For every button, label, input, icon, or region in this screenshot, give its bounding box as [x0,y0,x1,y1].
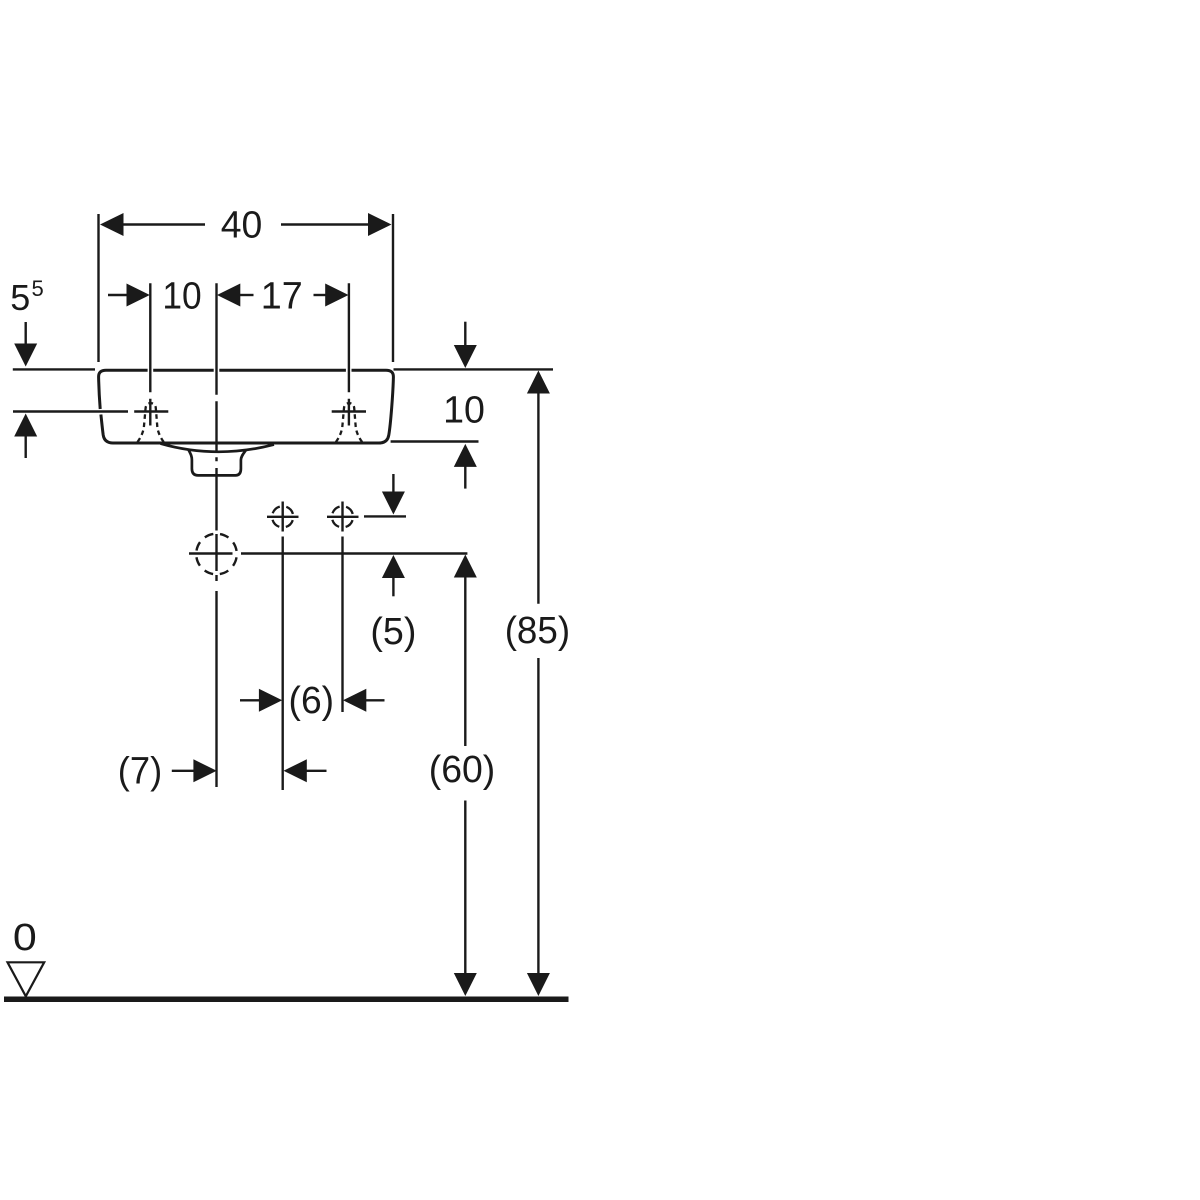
dimension 5.5 arrow down tail [25,322,27,346]
svg-text:10: 10 [162,276,201,318]
dimension (6): arrow left [343,689,366,712]
dimension 40 line right segment [281,223,369,225]
dimension 10 right: arrow up [454,444,477,467]
fixing hole right: dashed circle [332,506,353,527]
basin top reference line right [394,368,554,370]
dimension 10 arrow left [127,284,150,307]
floor line [4,997,569,1003]
dimension (7): tail line right [306,770,326,772]
basin outline left wall lower, bottom and right wall [101,370,394,443]
dimension (85): line lower [537,658,539,975]
svg-text:5: 5 [32,276,44,301]
dimension 17 arrow left [217,284,240,307]
svg-text:10: 10 [443,390,485,432]
fixing hole left: horizontal cross line [267,516,299,518]
dimension 5 arrow up [382,555,405,578]
dimension 10 right: arrow down tail [464,322,466,346]
dimension 17 tail line right [314,294,327,296]
dimension (60): line lower [464,801,466,975]
dimension 5 arrow up tail [392,578,394,597]
svg-text:5: 5 [10,277,30,318]
svg-text:(60): (60) [429,749,496,791]
dimension 10 right: arrow up tail [464,466,466,488]
basin outline top edge [106,369,386,372]
dimension (7): arrow right [193,759,216,782]
fixing hole right: horizontal cross line [327,516,359,518]
dimension (6): tail line right [366,699,385,701]
dimension 5.5 arrow down [14,344,37,367]
basin bottom reference line right [391,440,479,442]
fixing hole left: vertical cross line [282,502,284,532]
tap hole axis reference line left [13,410,128,412]
faucet symbol left (dashed) [138,403,164,442]
bowl lip arc [161,444,275,452]
fixing hole left: centerline down [282,537,284,791]
dimension 17 tail line left [240,294,254,296]
dimension (85): line upper [537,393,539,604]
tap hole axis line through right faucet [332,410,366,412]
svg-text:40: 40 [221,205,263,247]
drain hole horizontal cross line [189,552,233,554]
dimension (7): arrow left [284,759,307,782]
dimension (85): arrow up [527,371,550,394]
datum triangle symbol [8,962,45,996]
dimension 40 extension line right [392,214,394,362]
dimension 5.5 arrow up tail [25,436,27,458]
svg-text:(7): (7) [118,751,162,793]
svg-text:(6): (6) [289,680,335,722]
dimension 5 arrow down tail [392,474,394,493]
dimension 40 extension line left [97,214,99,362]
drain outlet funnel [189,450,246,475]
tap hole centerline left [149,283,151,425]
dimension 10 right: arrow down [454,345,477,368]
dimension 40 line left segment [123,223,205,225]
fixing hole right: vertical cross line [341,502,343,532]
dimension 5 arrow down [382,492,405,515]
fixing hole left: dashed circle [272,506,293,527]
dimension 40 arrow right [368,213,392,236]
drain axis reference line [241,552,467,554]
dimension 10 tail line left [108,294,128,296]
dimension 5.5 arrow up [14,414,37,437]
dimension (6): arrow right [259,689,282,712]
dimension (7): tail line left [172,770,196,772]
dimension (60): line upper [464,577,466,746]
fixing hole right: centerline down [341,537,343,713]
dimension 17 arrow right [325,284,348,307]
svg-text:(85): (85) [505,610,570,652]
basin outline left wall upper [99,370,106,409]
dimension (60): arrow up [454,555,477,578]
svg-text:(5): (5) [370,611,416,653]
dimension 40 arrow left [100,213,124,236]
svg-text:17: 17 [261,276,303,318]
basin centerline [215,283,217,787]
drain hole dashed circle [196,534,237,575]
tap hole centerline right [348,283,350,425]
svg-text:0: 0 [13,917,37,959]
faucet symbol right (dashed) [336,403,362,442]
dimension (85): arrow down at floor [527,973,550,996]
dimension 5 short reference line [364,515,406,517]
dimension (6): tail line left [240,699,261,701]
dimension (60): arrow down at floor [454,973,477,996]
tap hole axis line through left faucet [134,410,168,412]
basin top reference line left [13,368,95,370]
